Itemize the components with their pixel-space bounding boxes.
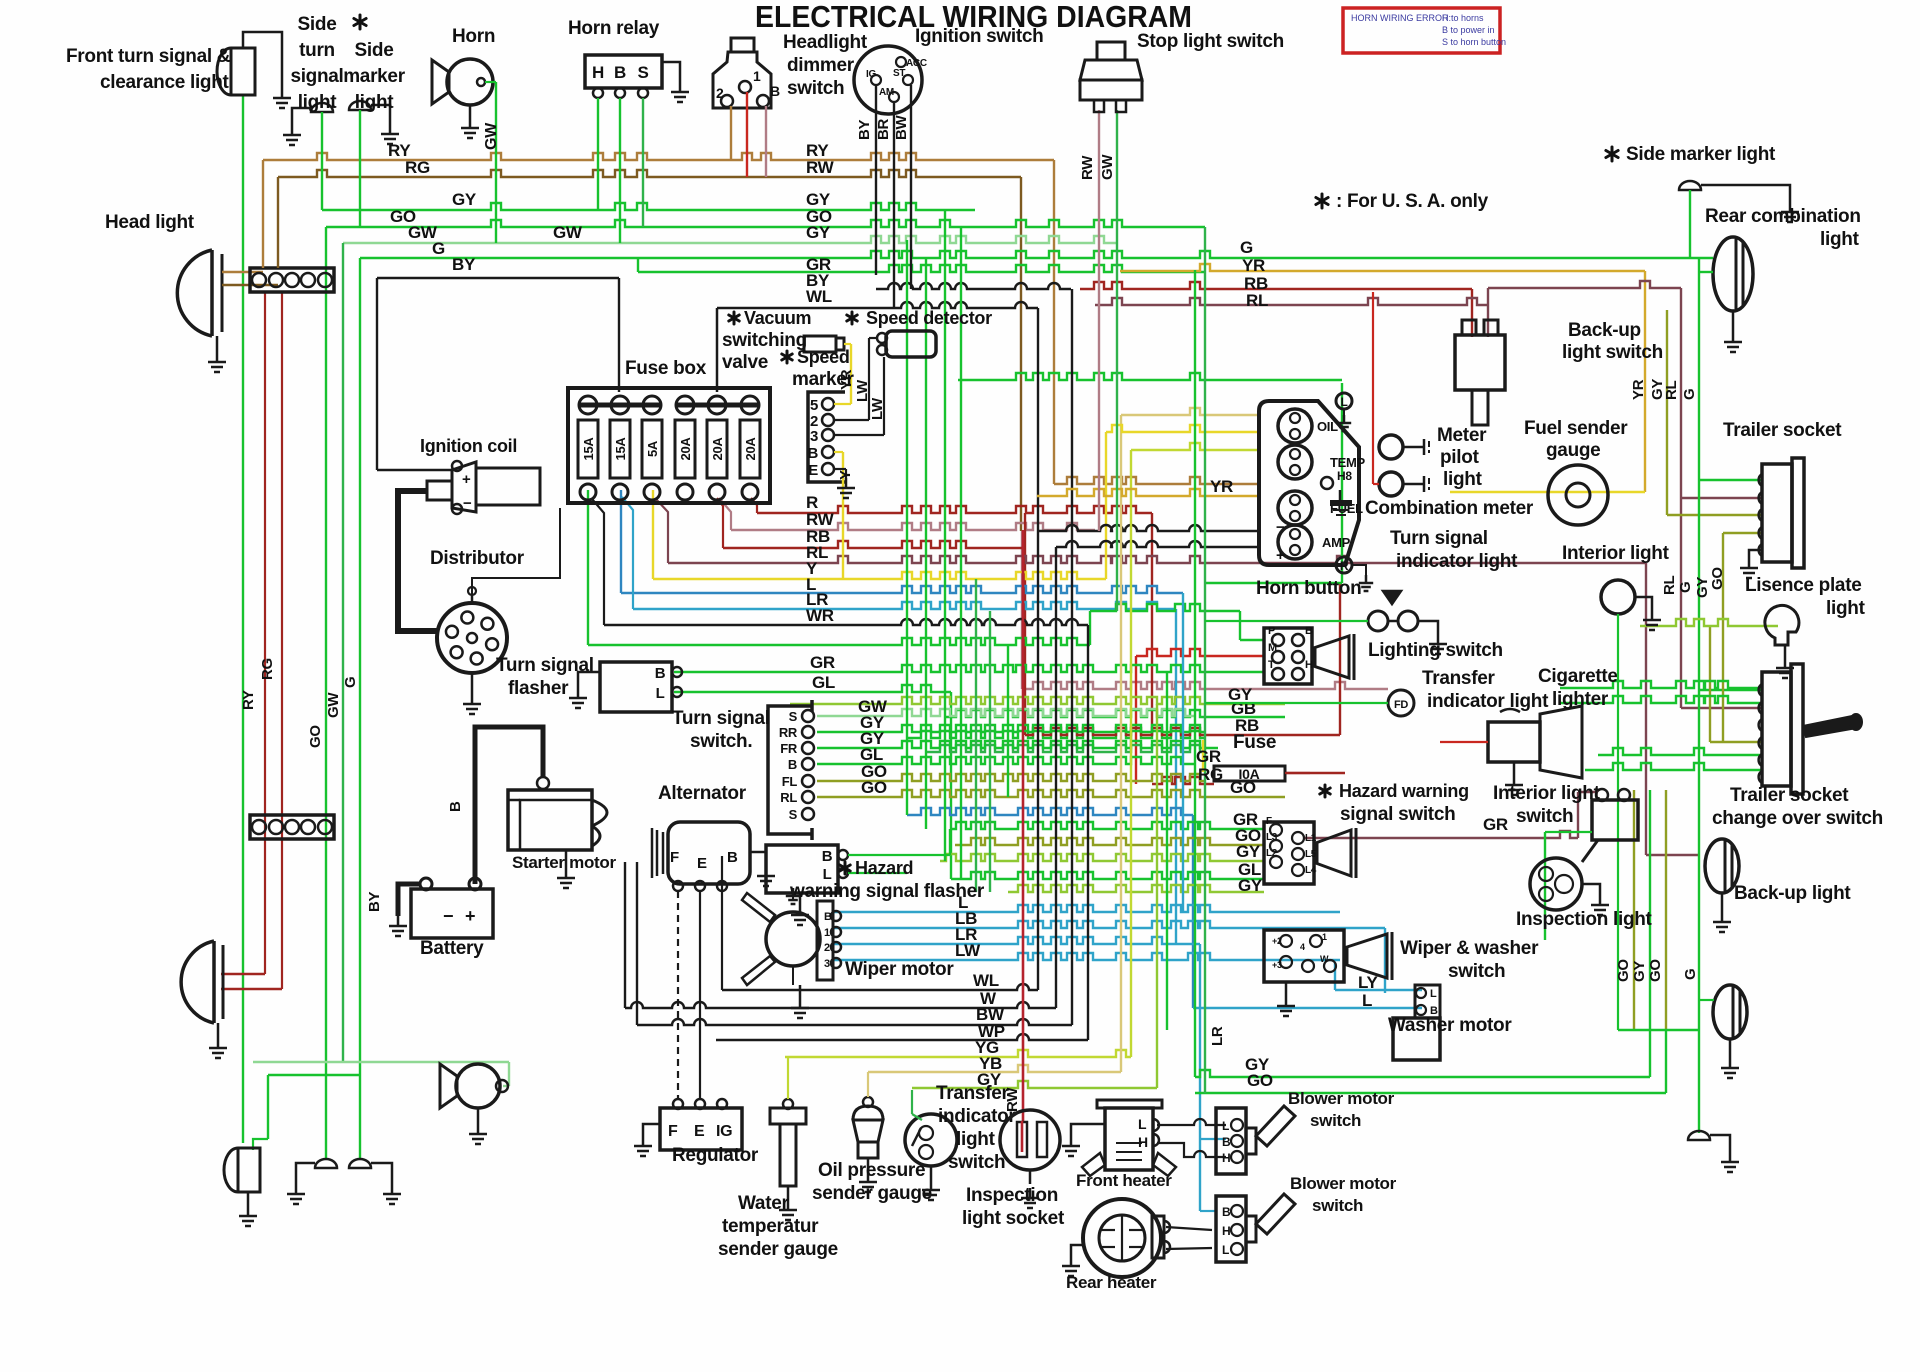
red vertical RY left	[264, 292, 266, 974]
svg-text:4: 4	[1300, 942, 1305, 952]
hazard warning signal switch	[1264, 822, 1314, 884]
svg-text:RW: RW	[806, 158, 835, 177]
green bottom jog	[268, 1074, 360, 1076]
svg-text:−: −	[463, 495, 472, 512]
svg-text:GY: GY	[806, 223, 831, 242]
front heater	[1097, 1100, 1162, 1108]
connector strip lower	[250, 815, 334, 839]
svg-text:G: G	[342, 677, 359, 688]
svg-text:GW: GW	[325, 692, 342, 718]
transfer indicator light switch	[905, 1114, 957, 1166]
wire RG dark brown top bus	[278, 170, 1021, 177]
svg-text:WL: WL	[973, 971, 999, 990]
svg-text:Lisence plate: Lisence plate	[1745, 575, 1861, 596]
svg-text:GR: GR	[1196, 747, 1221, 766]
svg-text:RL: RL	[1246, 291, 1268, 310]
svg-text:L5: L5	[1305, 849, 1317, 860]
green vertical c	[944, 210, 946, 861]
wire GW turn signal switch	[817, 709, 1195, 716]
wire YB meter	[1121, 408, 1261, 415]
svg-text:BY: BY	[452, 255, 476, 274]
svg-text:E: E	[694, 1123, 705, 1140]
svg-text:RL: RL	[1661, 575, 1678, 595]
svg-text:RY: RY	[240, 690, 257, 710]
green verticals bottom right	[1633, 790, 1635, 1030]
svg-text:F: F	[1266, 816, 1272, 827]
wire GL green flasher	[674, 685, 951, 692]
svg-text:B: B	[788, 757, 797, 772]
svg-text:5: 5	[810, 397, 818, 414]
svg-text:H: H	[592, 63, 604, 82]
svg-text:Back-up: Back-up	[1568, 320, 1641, 341]
svg-text:GY: GY	[452, 190, 477, 209]
svg-text:Meter: Meter	[1437, 425, 1487, 446]
svg-text:GR: GR	[1483, 815, 1508, 834]
interior light	[1601, 580, 1635, 614]
green vertical g	[1007, 645, 1009, 797]
svg-text:signal switch: signal switch	[1340, 804, 1455, 825]
svg-text:E: E	[697, 855, 707, 872]
svg-text:TEMP: TEMP	[1330, 455, 1366, 470]
wire RW vertical stop light	[1098, 110, 1100, 531]
svg-text:I0A: I0A	[1239, 766, 1260, 782]
svg-text:M: M	[1268, 642, 1277, 654]
svg-text:Front turn signal &: Front turn signal &	[66, 46, 231, 67]
side marker light bottom	[1688, 1131, 1710, 1140]
green join bottom right	[1618, 1029, 1699, 1031]
back-up light switch	[1455, 335, 1505, 390]
svg-text:GO: GO	[861, 778, 887, 797]
svg-text:LR: LR	[1209, 1026, 1226, 1046]
wire GY ts	[817, 725, 1205, 732]
svg-text:LW: LW	[955, 941, 981, 960]
svg-text:GO: GO	[1247, 1071, 1273, 1090]
svg-text:GW: GW	[483, 122, 500, 150]
svg-text:Horn button: Horn button	[1256, 578, 1361, 599]
wire GY licence plate	[1640, 619, 1778, 626]
wire RB dark red from fuse	[723, 541, 1025, 548]
wire GY ts2	[817, 741, 1218, 748]
wire BY black top	[377, 277, 619, 279]
svg-text:1: 1	[753, 68, 761, 84]
svg-text:GO: GO	[1615, 959, 1632, 982]
wire WL black top	[717, 302, 1038, 308]
svg-text:FR: FR	[780, 741, 798, 756]
usa only note	[1316, 194, 1328, 208]
ignition coil	[476, 468, 540, 505]
svg-text:AMP: AMP	[1322, 535, 1351, 550]
wire RL maroon right	[1095, 298, 1488, 305]
svg-text:Rear combination: Rear combination	[1705, 206, 1861, 227]
svg-text:Back-up light: Back-up light	[1734, 883, 1851, 904]
svg-text:L2: L2	[1266, 848, 1278, 859]
svg-text:GR: GR	[810, 653, 835, 672]
water temperature sender gauge	[770, 1108, 806, 1124]
wire GW pale green top	[343, 236, 1117, 243]
turn signal flasher	[600, 662, 672, 712]
svg-text:gauge: gauge	[1546, 440, 1600, 461]
horn relay	[585, 55, 662, 88]
green to change-over switch 3	[1598, 748, 1762, 755]
svg-text:GL: GL	[812, 673, 835, 692]
horn lower	[456, 1064, 500, 1108]
wire RL maroon long	[668, 556, 1646, 563]
yellow vertical fuse10A	[1202, 740, 1204, 772]
wire GB green mid	[945, 710, 1285, 717]
wire GL green hazard	[951, 872, 1264, 879]
blower motor switch upper	[1216, 1108, 1246, 1174]
head light	[177, 250, 212, 336]
svg-text:Y: Y	[837, 470, 854, 480]
svg-text:B: B	[807, 445, 818, 462]
svg-text:W: W	[1320, 954, 1329, 964]
svg-text:indicator light: indicator light	[1396, 551, 1518, 572]
svg-text:Side marker light: Side marker light	[1626, 144, 1776, 165]
svg-text:Ignition coil: Ignition coil	[420, 436, 517, 456]
svg-text:−: −	[443, 906, 453, 926]
wire BW black bottom	[637, 1019, 1072, 1025]
svg-text:+: +	[465, 906, 475, 926]
svg-text:B to power in: B to power in	[1442, 25, 1495, 35]
svg-text:Interior light: Interior light	[1493, 783, 1601, 804]
svg-text:Speed detector: Speed detector	[866, 308, 992, 328]
wire YG meter	[1131, 443, 1261, 450]
svg-text:+: +	[462, 471, 471, 488]
svg-text:Fuse box: Fuse box	[625, 358, 707, 379]
svg-text:L: L	[1362, 991, 1372, 1010]
svg-text:B: B	[447, 801, 464, 812]
wire RB dark red right	[1080, 282, 1472, 289]
svg-text:Battery: Battery	[420, 938, 484, 959]
svg-text:Transfer: Transfer	[936, 1083, 1009, 1104]
svg-text:T: T	[1268, 659, 1275, 671]
svg-text:G: G	[1240, 238, 1253, 257]
wire green fusebox feed	[588, 638, 1090, 645]
svg-text:pilot: pilot	[1440, 447, 1480, 468]
stop light switch	[1097, 42, 1125, 60]
wire LY cyan washer	[1335, 989, 1422, 991]
pale green bottom to horn	[253, 1061, 509, 1063]
svg-text:change over switch: change over switch	[1712, 808, 1883, 829]
svg-text:Blower motor: Blower motor	[1290, 1174, 1397, 1193]
svg-text:switch: switch	[948, 1152, 1005, 1173]
svg-text:Turn signal: Turn signal	[1390, 528, 1488, 549]
back-up light lower	[1713, 985, 1747, 1039]
side turn signal light	[311, 103, 333, 112]
washer motor	[1393, 1018, 1440, 1060]
alternator	[668, 822, 750, 884]
wire LR cyan wiper	[834, 937, 1200, 944]
interior light switch	[1592, 800, 1638, 840]
wire GO green to meter wrap	[958, 373, 1342, 380]
svg-text:Starter motor: Starter motor	[512, 853, 616, 872]
wire Y yellow	[653, 572, 1106, 579]
svg-text:Inspection light: Inspection light	[1516, 909, 1653, 930]
red vertical RG left	[281, 292, 283, 989]
wire G green main bus	[360, 251, 1713, 258]
side marker light top-left	[349, 101, 371, 110]
svg-text:G: G	[1677, 582, 1694, 593]
svg-text:Wiper & washer: Wiper & washer	[1400, 938, 1539, 959]
wire GO ts	[817, 774, 1205, 781]
green vertical e	[975, 579, 977, 892]
svg-text:Fuse: Fuse	[1233, 732, 1276, 753]
front turn signal and clearance light	[217, 48, 255, 95]
svg-text:S: S	[789, 807, 798, 822]
svg-text:H: H	[1305, 659, 1313, 671]
wire YR yellow right bus	[1120, 264, 1645, 271]
side marker light top-right	[1679, 181, 1701, 190]
svg-text:Rear heater: Rear heater	[1066, 1273, 1157, 1292]
svg-text:G: G	[1681, 389, 1698, 400]
wire GL ts	[817, 757, 1195, 764]
wire L cyan washer	[1193, 1007, 1422, 1009]
svg-text:warning signal flasher: warning signal flasher	[789, 881, 985, 902]
svg-text:RL: RL	[780, 790, 797, 805]
clearance lamp a	[315, 1159, 337, 1168]
svg-text:light: light	[1820, 229, 1860, 250]
trailer socket change over switch	[1762, 672, 1791, 786]
svg-text:switch: switch	[1312, 1196, 1363, 1215]
svg-text:B: B	[727, 849, 738, 866]
svg-text:BW: BW	[893, 114, 910, 140]
trailer socket	[1762, 464, 1792, 562]
svg-text:Hazard: Hazard	[855, 858, 913, 878]
wiper motor	[766, 912, 820, 966]
svg-text:Stop light switch: Stop light switch	[1137, 31, 1284, 52]
svg-text:Water: Water	[738, 1193, 789, 1214]
svg-text:GY: GY	[1238, 876, 1263, 895]
svg-text:−: −	[1276, 519, 1285, 536]
svg-text:YR: YR	[1210, 477, 1233, 496]
wire GY green-yellow mid	[790, 697, 1285, 704]
svg-text:valve: valve	[722, 352, 768, 373]
svg-text:lighter: lighter	[1552, 689, 1609, 710]
svg-text:Inspection: Inspection	[966, 1185, 1058, 1206]
svg-text:H: H	[1138, 1134, 1148, 1150]
svg-text:Turn signal: Turn signal	[672, 708, 770, 729]
svg-text:Turn signal: Turn signal	[496, 655, 594, 676]
svg-text:FL: FL	[782, 774, 798, 789]
svg-text:RG: RG	[259, 658, 276, 680]
svg-text:L1: L1	[1305, 833, 1317, 844]
wire L cyan wiper	[834, 905, 1340, 912]
svg-text:Interior light: Interior light	[1562, 543, 1670, 564]
svg-text:GO: GO	[307, 725, 324, 748]
svg-text:light socket: light socket	[962, 1208, 1065, 1229]
wire GY green long bottom	[1195, 1070, 1650, 1077]
wire WP black bottom	[716, 1034, 1088, 1040]
wire GR green hazard	[950, 822, 1264, 829]
svg-text:L: L	[1222, 1119, 1229, 1133]
svg-text:+3: +3	[1272, 960, 1282, 970]
wire GO ts2	[817, 790, 1008, 797]
svg-text:RR: RR	[779, 725, 798, 740]
svg-text:S: S	[637, 63, 648, 82]
svg-text:1: 1	[1322, 932, 1327, 942]
horn button	[1383, 591, 1401, 604]
svg-text:FD: FD	[1394, 699, 1408, 711]
turn signal switch	[768, 706, 812, 834]
svg-text:temperatur: temperatur	[722, 1216, 819, 1237]
svg-text:GY: GY	[1631, 961, 1648, 982]
cigarette lighter	[1488, 722, 1540, 762]
svg-text:Head light: Head light	[105, 212, 195, 233]
svg-text:S: S	[789, 709, 798, 724]
svg-text:GW: GW	[553, 223, 583, 242]
svg-text:L4: L4	[1305, 865, 1317, 876]
svg-text:L: L	[656, 685, 665, 702]
note box HORN WIRING ERROR	[1343, 8, 1500, 53]
wire YG yellow-green bottom	[785, 1050, 1131, 1057]
lighting switch	[1264, 628, 1312, 684]
svg-text:HORN WIRING ERROR:: HORN WIRING ERROR:	[1351, 13, 1451, 23]
svg-text:B: B	[1222, 1135, 1231, 1149]
svg-text:RL: RL	[1663, 380, 1680, 400]
wire BY black arcs	[876, 283, 1071, 289]
svg-text:LW: LW	[869, 397, 886, 420]
svg-text:20A: 20A	[710, 437, 725, 461]
svg-text:indicator light: indicator light	[1427, 691, 1549, 712]
fuse box	[568, 388, 770, 503]
svg-text:Alternator: Alternator	[658, 783, 747, 804]
svg-text:H: H	[1222, 1224, 1230, 1238]
svg-text:L: L	[1138, 1116, 1147, 1132]
svg-text:WR: WR	[806, 606, 834, 625]
svg-text:2: 2	[824, 942, 830, 954]
combination meter	[1259, 401, 1359, 565]
svg-text:3: 3	[824, 958, 830, 970]
green vertical k	[1204, 227, 1206, 1093]
svg-text:+: +	[1276, 547, 1285, 564]
svg-text:: For U. S. A. only: : For U. S. A. only	[1336, 191, 1489, 212]
svg-text:OIL: OIL	[1317, 419, 1338, 434]
svg-text:1: 1	[824, 927, 830, 939]
svg-text:light: light	[355, 92, 395, 113]
svg-text:Hazard warning: Hazard warning	[1339, 781, 1469, 801]
wire R red from fuse	[757, 506, 1152, 513]
svg-text:switching: switching	[722, 330, 807, 351]
transfer indicator light	[1388, 690, 1414, 716]
wire RW mauve to lighting area	[1022, 682, 1388, 689]
svg-text:B: B	[770, 83, 780, 99]
svg-text:20A: 20A	[743, 437, 758, 461]
svg-text:sender gauge: sender gauge	[718, 1239, 838, 1260]
wire GO olive hazard	[955, 838, 1264, 845]
svg-text:switch: switch	[1310, 1111, 1361, 1130]
svg-text:signal: signal	[290, 66, 343, 87]
svg-text:light switch: light switch	[1562, 342, 1663, 363]
oil pressure sender gauge	[853, 1120, 883, 1142]
wire RG dark red fuse10A	[1152, 777, 1214, 784]
svg-text:2: 2	[716, 85, 724, 101]
svg-text:clearance light: clearance light	[100, 72, 230, 93]
svg-text:Front heater: Front heater	[1076, 1171, 1172, 1190]
blower motor switch lower	[1216, 1196, 1246, 1262]
hazard warning signal flasher	[766, 845, 838, 893]
wire BY vertical ignition	[875, 85, 877, 275]
wire YR to fuel sender gauge	[1450, 491, 1645, 493]
svg-text:switch: switch	[1516, 806, 1573, 827]
wire RY brown top bus	[263, 153, 1054, 160]
wire W black meter	[1056, 541, 1261, 547]
svg-text:GY: GY	[1236, 842, 1261, 861]
svg-text:LY: LY	[1358, 973, 1379, 992]
wire green row b	[926, 745, 1205, 752]
wire RW crimson vertical	[1022, 530, 1025, 1121]
svg-text:Oil pressure: Oil pressure	[818, 1160, 925, 1181]
inspection light socket	[1000, 1110, 1060, 1170]
svg-text:B: B	[1305, 625, 1313, 637]
front turn signal light lower	[224, 1148, 260, 1192]
svg-text:Fuel sender: Fuel sender	[1524, 418, 1628, 439]
svg-text:Transfer: Transfer	[1422, 668, 1495, 689]
svg-text:15A: 15A	[613, 437, 628, 461]
svg-text:B: B	[1222, 1205, 1231, 1219]
battery	[411, 889, 493, 938]
wire GO olive right col2	[1722, 533, 1724, 743]
svg-text:+2: +2	[1272, 936, 1282, 946]
svg-text:Vacuum: Vacuum	[744, 308, 811, 328]
fuse 10A	[1214, 766, 1285, 781]
svg-text:YR: YR	[1242, 256, 1265, 275]
svg-text:L3: L3	[1266, 832, 1278, 843]
svg-text:Distributor: Distributor	[430, 548, 525, 569]
svg-text:Regulator: Regulator	[672, 1145, 759, 1166]
svg-text:ACC: ACC	[906, 58, 927, 69]
wire GO olive mid	[1008, 790, 1285, 797]
horn	[447, 59, 493, 105]
svg-text:RG: RG	[405, 158, 430, 177]
green to change-over switch 4	[1585, 763, 1762, 770]
svg-text:WL: WL	[806, 287, 832, 306]
svg-text:Speed: Speed	[797, 347, 850, 367]
svg-text:P: P	[1268, 625, 1275, 637]
green vertical d	[960, 227, 962, 879]
svg-text:H to horns: H to horns	[1442, 13, 1484, 23]
svg-text:B: B	[655, 665, 666, 682]
svg-text:B: B	[614, 63, 626, 82]
vacuum switching valve	[804, 336, 836, 352]
green vertical meter wrap right	[1341, 383, 1343, 583]
svg-text:L: L	[1340, 395, 1347, 409]
svg-text:E: E	[808, 462, 818, 479]
wire WR black	[604, 619, 1088, 625]
svg-text:Washer motor: Washer motor	[1388, 1015, 1512, 1036]
svg-text:turn: turn	[299, 40, 335, 61]
wire GY2 olive right col	[1709, 626, 1711, 742]
svg-text:BR: BR	[875, 118, 892, 140]
svg-text:G: G	[432, 239, 445, 258]
head light lower	[181, 941, 214, 1023]
svg-text:ST: ST	[893, 68, 905, 79]
wire GY hazard	[940, 854, 1264, 861]
headlight connector	[250, 268, 334, 292]
rear heater	[1083, 1199, 1161, 1277]
svg-text:AM: AM	[879, 87, 894, 98]
wire WL black meter	[1038, 525, 1261, 531]
svg-text:marker: marker	[343, 66, 405, 87]
inspection light	[1530, 858, 1582, 910]
licence plate light	[1765, 605, 1799, 645]
svg-text:RW: RW	[1079, 155, 1096, 180]
svg-text:Headlight: Headlight	[783, 32, 868, 53]
svg-text:switch: switch	[787, 78, 844, 99]
wire BR vertical ignition	[893, 102, 895, 308]
starter motor	[508, 790, 592, 850]
regulator	[660, 1108, 742, 1150]
wire GY olive right	[1666, 310, 1668, 515]
